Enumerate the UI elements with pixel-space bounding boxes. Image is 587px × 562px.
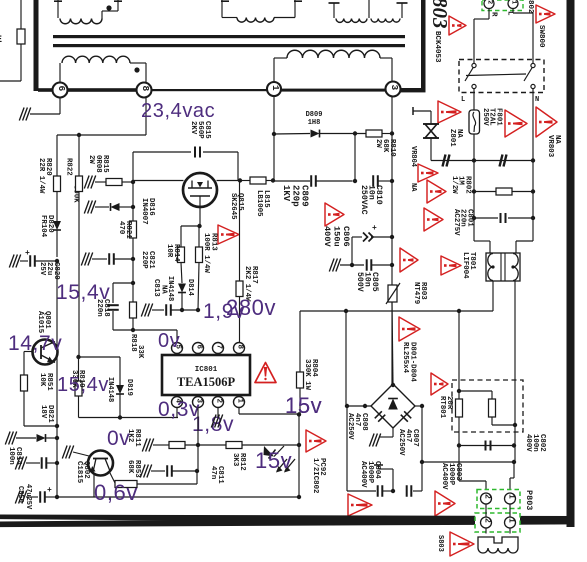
svg-text:D814: D814 — [186, 279, 194, 296]
svg-text:+: + — [25, 249, 30, 258]
svg-text:100n: 100n — [7, 447, 15, 465]
svg-text:R: R — [490, 12, 498, 17]
svg-text:14,7v: 14,7v — [8, 332, 62, 355]
svg-text:RL255x4: RL255x4 — [401, 342, 409, 374]
svg-text:A1015: A1015 — [36, 311, 44, 334]
svg-text:15v: 15v — [255, 448, 292, 473]
svg-text:250V: 250V — [481, 108, 489, 126]
svg-text:1: 1 — [511, 0, 518, 4]
svg-text:C850: C850 — [16, 486, 24, 503]
svg-text:250VAC: 250VAC — [359, 185, 368, 215]
svg-text:RT801: RT801 — [438, 396, 446, 419]
svg-text:+: + — [47, 486, 52, 495]
svg-text:1: 1 — [270, 85, 281, 91]
svg-text:0v: 0v — [158, 330, 180, 352]
svg-text:23,4vac: 23,4vac — [141, 100, 215, 122]
svg-text:IN4007: IN4007 — [140, 198, 148, 225]
svg-text:6: 6 — [195, 345, 203, 350]
svg-text:1H8: 1H8 — [308, 119, 321, 127]
svg-text:1: 1 — [507, 518, 516, 523]
svg-text:47n: 47n — [209, 466, 217, 479]
svg-text:0v: 0v — [107, 427, 130, 450]
svg-text:AC275V: AC275V — [452, 209, 460, 236]
svg-text:1: 1 — [507, 494, 516, 499]
svg-text:15v: 15v — [285, 393, 322, 418]
svg-text:220P: 220P — [140, 251, 148, 269]
svg-text:10K: 10K — [38, 373, 46, 387]
svg-text:L: L — [506, 11, 514, 16]
svg-text:47u25V: 47u25V — [24, 484, 32, 510]
svg-text:400V: 400V — [322, 226, 332, 247]
svg-text:+: + — [372, 224, 377, 233]
svg-text:S803: S803 — [436, 535, 444, 552]
svg-text:10R: 10R — [165, 244, 173, 258]
svg-text:1/2IC802: 1/2IC802 — [311, 458, 319, 493]
svg-text:0,6v: 0,6v — [94, 480, 138, 505]
svg-text:SK2645: SK2645 — [229, 193, 237, 220]
svg-text:L: L — [461, 96, 465, 104]
svg-text:6: 6 — [56, 86, 67, 92]
svg-text:2W: 2W — [374, 139, 382, 148]
svg-text:33K: 33K — [136, 345, 144, 359]
svg-text:2: 2 — [483, 494, 492, 499]
svg-text:BCK4053: BCK4053 — [433, 31, 441, 63]
svg-text:FR104: FR104 — [39, 215, 47, 238]
svg-text:15,4v: 15,4v — [56, 281, 110, 304]
svg-text:NT479: NT479 — [412, 282, 420, 304]
svg-text:2KV: 2KV — [189, 121, 197, 135]
svg-text:C1815: C1815 — [75, 461, 83, 484]
svg-text:D809: D809 — [306, 111, 323, 119]
svg-text:280v: 280v — [226, 295, 276, 320]
svg-text:E: E — [0, 35, 2, 46]
svg-text:C813: C813 — [152, 279, 160, 297]
svg-text:D819: D819 — [125, 379, 133, 396]
svg-text:400V: 400V — [524, 434, 532, 452]
svg-text:2W: 2W — [87, 155, 95, 164]
svg-text:AC250V: AC250V — [397, 429, 405, 456]
svg-text:2: 2 — [487, 0, 494, 4]
svg-text:470: 470 — [117, 221, 125, 235]
svg-text:8: 8 — [236, 345, 244, 350]
svg-text:15,4v: 15,4v — [57, 374, 109, 396]
svg-text:1KV: 1KV — [281, 185, 291, 202]
svg-text:IC801: IC801 — [195, 366, 218, 374]
svg-text:NA: NA — [409, 183, 417, 192]
svg-text:VR804: VR804 — [409, 146, 417, 167]
svg-text:2: 2 — [483, 518, 492, 523]
svg-text:68K: 68K — [126, 460, 134, 474]
svg-text:NA: NA — [160, 285, 168, 294]
svg-text:500V: 500V — [355, 272, 364, 292]
svg-text:AC400V: AC400V — [440, 463, 448, 490]
svg-text:AC400V: AC400V — [359, 461, 367, 488]
svg-text:1: 1 — [236, 399, 244, 404]
svg-text:P803: P803 — [524, 490, 534, 510]
svg-text:330K 1W: 330K 1W — [303, 359, 311, 391]
svg-text:1/2W: 1/2W — [450, 176, 458, 194]
svg-text:SW800: SW800 — [537, 25, 545, 48]
svg-text:3K3: 3K3 — [231, 453, 239, 467]
svg-text:22R 1/4W: 22R 1/4W — [37, 158, 45, 194]
svg-text:R818: R818 — [129, 334, 137, 352]
svg-text:LIF004: LIF004 — [461, 252, 469, 279]
svg-text:8: 8 — [140, 86, 151, 92]
svg-text:18V: 18V — [39, 405, 47, 419]
svg-text:Z801: Z801 — [448, 129, 456, 147]
svg-text:N: N — [535, 96, 539, 104]
svg-text:25V: 25V — [38, 262, 46, 276]
svg-text:VR803: VR803 — [546, 135, 554, 158]
svg-text:R822: R822 — [65, 158, 73, 176]
svg-text:3: 3 — [389, 85, 400, 91]
svg-text:LB1005: LB1005 — [255, 190, 263, 217]
svg-text:7: 7 — [215, 345, 223, 350]
svg-text:2: 2 — [215, 399, 223, 404]
svg-text:100R 1/4W: 100R 1/4W — [202, 233, 210, 273]
svg-text:TEA1506P: TEA1506P — [177, 375, 236, 389]
svg-text:802: 802 — [526, 0, 534, 14]
